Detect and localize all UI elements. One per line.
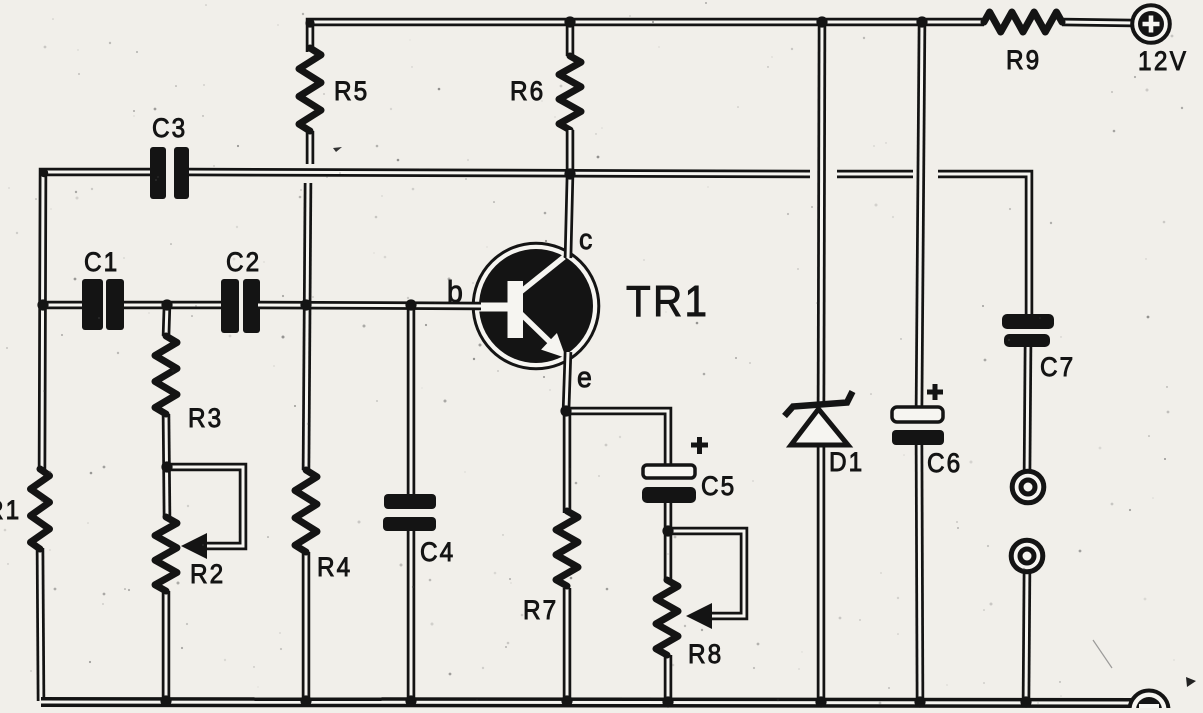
wire: C3 row middle segment bbox=[187, 172, 810, 174]
svg-text:R2: R2 bbox=[190, 560, 225, 589]
svg-text:R8: R8 bbox=[688, 640, 723, 669]
svg-text:TR1: TR1 bbox=[626, 276, 709, 325]
wire: R7 top lead from emitter node bbox=[563, 411, 572, 513]
corner blob top-left of supply rail bbox=[305, 18, 314, 27]
wire: bottom ground rail bbox=[41, 702, 1135, 703]
label e (emitter) bbox=[577, 361, 594, 393]
resistor R4 bbox=[295, 470, 352, 582]
resistor R5 bbox=[299, 48, 369, 131]
12V positive supply terminal bbox=[1132, 5, 1188, 76]
potentiometer R8 bbox=[656, 580, 723, 669]
wire: D1 column from supply rail to zener bbox=[821, 22, 822, 404]
svg-text:C5: C5 bbox=[701, 472, 736, 501]
capacitor C4 bbox=[383, 494, 455, 567]
wire: R2 bottom lead to ground rail bbox=[162, 591, 171, 701]
electrolytic capacitor C5 bbox=[642, 437, 736, 503]
wire: R5 bottom lead (breaks at C3 row crossover) bbox=[306, 131, 315, 164]
svg-text:R6: R6 bbox=[510, 77, 545, 106]
wire: R5/R4 column from below C3 row through base row to R4 bbox=[306, 183, 308, 470]
capacitor C3 bbox=[150, 114, 189, 199]
potentiometer R2 bbox=[155, 517, 225, 591]
transistor TR1 bbox=[473, 243, 709, 369]
wire: R3-R2 junction lead bbox=[166, 414, 167, 517]
wire: collector lead into TR1 bbox=[568, 130, 570, 258]
wire: R8 wiper loop with arrow bbox=[668, 531, 744, 629]
wire: base row segment from C1 to C2 bbox=[123, 301, 222, 310]
capacitor C1 bbox=[82, 248, 124, 330]
svg-text:R7: R7 bbox=[523, 596, 558, 625]
wire: R8 bottom lead to ground rail bbox=[664, 655, 673, 701]
svg-text:R5: R5 bbox=[334, 77, 369, 106]
svg-text:c: c bbox=[579, 223, 594, 255]
svg-text:e: e bbox=[577, 361, 594, 393]
wire: top supply rail with corner down to R5 bbox=[310, 22, 984, 52]
wire: C6 column from supply rail bbox=[919, 22, 922, 409]
wire: emitter lead out of TR1 bbox=[566, 352, 568, 411]
zener diode D1 bbox=[785, 392, 865, 478]
wire: emitter branch to C5 bbox=[566, 411, 668, 467]
wire: top rail from R9 to 12V terminal bbox=[1062, 22, 1133, 23]
negative supply terminal (bottom right) bbox=[1130, 691, 1169, 713]
wire: C5 bottom lead to R8 bbox=[664, 501, 673, 580]
svg-text:R4: R4 bbox=[317, 553, 352, 582]
resistor R9 bbox=[984, 12, 1062, 75]
wire: lower output terminal lead to ground rail bbox=[1026, 568, 1027, 701]
svg-text:D1: D1 bbox=[829, 448, 864, 477]
wire: R2 wiper loop with arrow bbox=[167, 467, 243, 559]
electrolytic capacitor C6 bbox=[892, 384, 962, 478]
svg-text:C3: C3 bbox=[152, 114, 187, 143]
wire: C7 bottom lead to output terminal bbox=[1027, 347, 1028, 476]
svg-text:R9: R9 bbox=[1006, 46, 1041, 75]
wire: left rail upper (C3 row corner down to R1) bbox=[42, 172, 152, 470]
wire: base row segment from left rail to C1 bbox=[41, 301, 84, 310]
resistor R7 bbox=[523, 511, 578, 625]
svg-text:C7: C7 bbox=[1040, 353, 1075, 382]
resistor R1 bbox=[0, 469, 50, 549]
wire: C4 top lead from base row bbox=[407, 305, 416, 496]
wire: D1 bottom lead to ground rail bbox=[817, 443, 826, 701]
wire: C3 row right segment with corner down to C7 bbox=[938, 174, 1029, 316]
label c (collector) bbox=[579, 223, 594, 255]
wire: base row into TR1 bbox=[258, 305, 481, 306]
output terminal lower bbox=[1011, 540, 1043, 572]
resistor R3 bbox=[155, 336, 223, 433]
corner blob left end of C3 row bbox=[40, 169, 48, 177]
wire: R7 bottom lead to ground rail bbox=[563, 588, 572, 701]
svg-text:C6: C6 bbox=[927, 449, 962, 478]
wire: left rail lower (R1 to bottom rail) bbox=[40, 548, 41, 701]
capacitor C7 bbox=[1002, 314, 1075, 382]
wire: R3 top lead from base row bbox=[166, 305, 167, 336]
wire: R6 top lead from supply rail bbox=[566, 22, 575, 56]
svg-text:C2: C2 bbox=[226, 248, 261, 277]
svg-text:12V: 12V bbox=[1138, 47, 1188, 76]
wire: C3 row segment between D1 and C6 (crossover gaps) bbox=[837, 170, 913, 179]
capacitor C2 bbox=[221, 248, 261, 333]
output terminal upper bbox=[1012, 471, 1044, 503]
wire: C4 bottom lead to ground rail bbox=[407, 530, 416, 701]
svg-text:R1: R1 bbox=[0, 496, 21, 525]
wire: R4 bottom lead to ground rail bbox=[302, 552, 311, 701]
svg-text:C4: C4 bbox=[420, 538, 455, 567]
wire: C6 bottom lead to ground rail bbox=[919, 443, 920, 701]
svg-text:C1: C1 bbox=[84, 248, 119, 277]
label b (base) bbox=[447, 275, 465, 309]
resistor R6 bbox=[510, 56, 581, 130]
svg-text:R3: R3 bbox=[188, 404, 223, 433]
